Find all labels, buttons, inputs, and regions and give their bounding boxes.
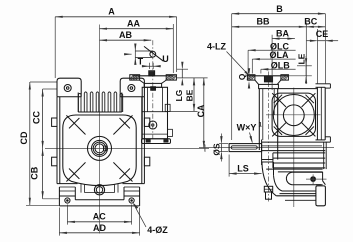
right wall upper tab (144, 118, 149, 126)
left outer wall (56, 97, 58, 184)
base recess line (75, 199, 124, 201)
tube inner right (273, 89, 275, 115)
bottom rib 1 (80, 184, 82, 193)
dimension line LC (248, 49, 296, 51)
side rib 2 (273, 152, 325, 154)
tapped hole top-left (66, 115, 85, 134)
centreline tick (204, 144, 206, 151)
dimension LS (229, 173, 262, 175)
left ear hole (64, 85, 71, 92)
body top line (278, 88, 318, 90)
output bore (95, 144, 104, 153)
extension S top (219, 143, 228, 145)
extension LE bottom (289, 75, 312, 77)
extension AD right (139, 208, 141, 236)
cap screw right (164, 140, 168, 143)
svg-text:CE: CE (316, 29, 329, 39)
extension B right (324, 14, 326, 84)
extension LS left (228, 155, 230, 177)
U dimension line (143, 65, 161, 67)
rear face hole bottom-left (272, 123, 286, 137)
flange top surface (247, 75, 288, 77)
svg-text:4-LZ: 4-LZ (207, 42, 227, 52)
dimension B (232, 13, 326, 15)
bracket top line (262, 159, 274, 161)
base plate top (282, 190, 316, 192)
back plate cap top (316, 83, 331, 85)
right foot upper line (124, 186, 140, 188)
left ear (57, 78, 81, 97)
right inner wall (141, 97, 143, 184)
extension line A left (54, 17, 56, 78)
dimension CC (42, 89, 44, 148)
dimension BC (306, 26, 325, 28)
housing bottom cap (142, 139, 171, 144)
fin field left edge (77, 93, 79, 113)
extension AC right (131, 205, 133, 225)
output boss circle (88, 136, 112, 160)
right foot mid line (124, 190, 140, 192)
right foot outer edge (139, 187, 141, 206)
right foot hole (129, 198, 134, 203)
extension CE left (316, 29, 318, 84)
dimension ØS (220, 144, 222, 152)
body lower right edge (322, 172, 324, 181)
back plate top (316, 86, 326, 88)
output shaft key slot (231, 146, 257, 149)
right ear (120, 78, 144, 97)
svg-text:LE: LE (297, 53, 307, 64)
flange left section block (hatched) (130, 75, 140, 80)
body line under face (262, 141, 331, 143)
tube outer right (277, 89, 279, 160)
leader 4-LZ right view (227, 52, 250, 77)
extension CB bottom (43, 198, 59, 200)
base plate mid (280, 193, 316, 195)
right foot inner edge (123, 187, 125, 200)
svg-text:LG: LG (174, 90, 184, 102)
right wall lower tab (144, 157, 149, 166)
side rib 1 (262, 150, 326, 152)
tapped hole top-right (113, 115, 132, 134)
flange collar (259, 84, 279, 88)
left foot inner edge (74, 187, 76, 200)
rib field left edge (272, 153, 274, 168)
T dimension line (134, 46, 136, 61)
bore keyway notch (103, 146, 106, 151)
svg-text:4-ØZ: 4-ØZ (147, 225, 168, 235)
dimension AA (100, 28, 174, 30)
extension flange top (177, 77, 208, 79)
far foot hidden line (285, 199, 316, 201)
left ear base line (57, 96, 81, 98)
body line 2 under face (262, 145, 322, 147)
svg-text:W×Y: W×Y (237, 122, 257, 132)
svg-text:U: U (162, 54, 169, 64)
extension LA (251, 59, 253, 73)
side rib 4 (273, 162, 325, 164)
flange slope left (255, 80, 259, 84)
rear face vertical centreline (293, 88, 295, 207)
drain plug upper (264, 186, 272, 192)
tube wall inner-right (161, 87, 163, 111)
svg-text:AD: AD (93, 223, 106, 233)
output bearing circle (92, 140, 108, 156)
dimension CB (42, 148, 44, 198)
extension BA left (271, 35, 273, 90)
dimension BA (272, 38, 295, 40)
svg-text:BE: BE (184, 89, 194, 101)
rear face hole top-right (302, 93, 316, 107)
extension top of body (43, 88, 57, 90)
svg-text:ØLB: ØLB (271, 60, 290, 70)
dimension LG (181, 69, 183, 78)
flange collar (144, 83, 161, 87)
foot boss top line 2 (278, 171, 323, 173)
body top line under fins (78, 111, 122, 113)
dimension LE (305, 66, 307, 76)
tube inner left (262, 89, 264, 140)
back plate lower cap edge (329, 137, 331, 142)
base plate bottom (276, 195, 316, 197)
output bore outer (93, 142, 106, 155)
housing lower step line (142, 133, 167, 135)
svg-text:AA: AA (127, 18, 140, 28)
cooling fins (78, 92, 122, 112)
left foot upper line (59, 186, 75, 188)
bolt vertical centreline (312, 174, 314, 184)
bottom rib 4 (117, 184, 119, 193)
worm end plug centre (152, 124, 154, 126)
svg-text:CD: CD (19, 131, 29, 144)
flange slope right (277, 80, 281, 84)
back plate cap edge (329, 84, 331, 88)
foot boss slot (pill) (286, 172, 322, 185)
svg-text:BB: BB (257, 16, 270, 26)
housing front face (rounded square) (63, 115, 136, 186)
key below collar (black) (151, 87, 156, 91)
left wall lower tab (52, 157, 57, 166)
left foot mid line (59, 190, 75, 192)
right ear hole (128, 85, 135, 92)
worm end plug (149, 121, 157, 129)
flange left block (hatched) (247, 75, 255, 80)
extension B left (shaft end) (231, 14, 233, 140)
bottom oil plug inner (96, 187, 102, 193)
keyway width line lower (135, 56, 153, 58)
base top line left (59, 195, 75, 197)
svg-text:CA: CA (196, 104, 206, 117)
svg-text:CB: CB (29, 166, 39, 179)
base bottom line (59, 205, 139, 207)
dimension BB (232, 26, 307, 28)
tapped hole bottom-left (66, 162, 85, 181)
input shaft key (black) (149, 72, 154, 76)
svg-text:T: T (138, 57, 144, 67)
svg-text:Q: Q (237, 73, 247, 80)
leader WxY (250, 133, 253, 143)
extension bottom (26, 204, 59, 206)
extension shaft top (177, 68, 189, 70)
extension BB/BC (305, 23, 307, 84)
housing side notch lower (168, 129, 173, 136)
front face edge (261, 140, 263, 166)
extension line AA right (172, 24, 174, 73)
svg-text:A: A (108, 7, 115, 17)
dimension BE (193, 78, 195, 112)
svg-text:BC: BC (304, 16, 317, 26)
foot boss top line 1 (266, 168, 322, 170)
side rib 3 (273, 157, 325, 159)
side rib 5 (273, 167, 325, 169)
flange right section block (hatched) (166, 75, 176, 80)
dimension CD (29, 82, 31, 205)
drain plug lower (266, 192, 272, 199)
svg-text:LS: LS (237, 163, 249, 173)
dimension CA (203, 78, 205, 148)
extension top of ears (30, 81, 57, 83)
back plate lower cap top (325, 136, 330, 138)
leader 4-ØZ (134, 204, 147, 227)
right outer wall (143, 97, 145, 184)
arc-foot junction right (123, 183, 145, 185)
left foot outer edge (58, 187, 60, 206)
back plate mid line (320, 87, 322, 140)
rear face large circle (273, 95, 314, 136)
housing step line (142, 111, 167, 113)
dimension AD (59, 232, 139, 234)
left view vertical centreline (99, 25, 101, 234)
dimension AC (67, 221, 131, 223)
dimension line LA (252, 58, 295, 60)
body lower right edge line 2 (325, 142, 327, 169)
left ear hole centre (66, 87, 69, 90)
left view horizontal centreline (45, 147, 209, 149)
output shaft (229, 144, 262, 152)
left inner wall (59, 97, 61, 184)
extension LE top (297, 65, 312, 67)
bracket top line 2 (262, 161, 274, 163)
keyway width line upper (135, 50, 153, 52)
svg-text:AB: AB (119, 30, 132, 40)
worm axis centreline (dashed) (152, 40, 154, 139)
housing side notch upper (165, 104, 170, 111)
dimension AB (100, 39, 152, 41)
cap screw left (146, 140, 150, 143)
rear foot pad (316, 186, 326, 206)
tube outer left (258, 89, 260, 150)
input shaft stub (protruding up) (149, 71, 155, 76)
rear mounting face (rounded square) (272, 93, 315, 136)
arc-foot junction left (57, 183, 78, 185)
bottom rib 2 (84, 184, 86, 192)
section diagonal (144, 46, 163, 61)
centreline end tick (204, 145, 206, 152)
svg-text:AC: AC (93, 212, 106, 222)
dimension line LB (261, 68, 296, 70)
keyway section detail (T/U) (124, 44, 169, 70)
right ear base line (120, 96, 144, 98)
output shaft centreline (199, 147, 334, 149)
bracket outer curve (262, 162, 276, 196)
base top line right (124, 195, 140, 197)
back plate rear edge (324, 87, 326, 140)
bracket inner curve (274, 175, 283, 191)
rear face hole top-left (272, 93, 286, 107)
shaft section circle (150, 51, 156, 57)
svg-text:ØLA: ØLA (270, 50, 289, 60)
bolt horizontal centreline (306, 178, 327, 180)
svg-text:B: B (276, 4, 283, 14)
bottom rib 3 (113, 184, 115, 192)
right ear hole centre (130, 87, 133, 90)
shaft/key section in flange (black) (264, 76, 272, 82)
flange slope right (162, 80, 167, 83)
svg-text:ØS: ØS (212, 143, 222, 156)
foot bolt (black dot) (311, 177, 316, 182)
svg-text:BA: BA (276, 28, 289, 38)
left wall upper tab (52, 118, 57, 126)
dimension CE (317, 40, 325, 42)
flange top surface (133, 75, 173, 77)
tube wall inner-left (147, 87, 149, 111)
extension LB (260, 69, 262, 73)
svg-text:CC: CC (31, 111, 41, 124)
rear face spigot circle (283, 105, 304, 126)
bracket edge (273, 162, 275, 175)
rear face hole bottom-right (302, 123, 316, 137)
bottom oil plug outer (94, 185, 104, 195)
extension AC left (66, 205, 68, 225)
extension LC (247, 50, 249, 73)
back plate front edge (316, 87, 318, 140)
fin field right edge (121, 93, 123, 113)
worm axis centreline (268, 72, 270, 202)
back plate bottom (316, 139, 326, 141)
extension line A right (176, 17, 178, 72)
dimension Q (248, 76, 250, 81)
flange right block (hatched) (281, 75, 289, 80)
extension S bottom (219, 151, 228, 153)
flange slope left (140, 80, 145, 83)
foot chamfer (323, 181, 326, 185)
bottom trough line (85, 192, 115, 194)
tapped hole bottom-right (113, 162, 132, 181)
extension AD left (58, 208, 60, 236)
extension body top (168, 110, 197, 112)
worm housing block (142, 87, 167, 139)
body lower right edge line 1 (323, 142, 325, 169)
left foot hole (65, 198, 70, 203)
dimension A (55, 16, 176, 18)
back plate cap bottom (325, 87, 330, 89)
rear face horizontal centreline (266, 114, 321, 116)
